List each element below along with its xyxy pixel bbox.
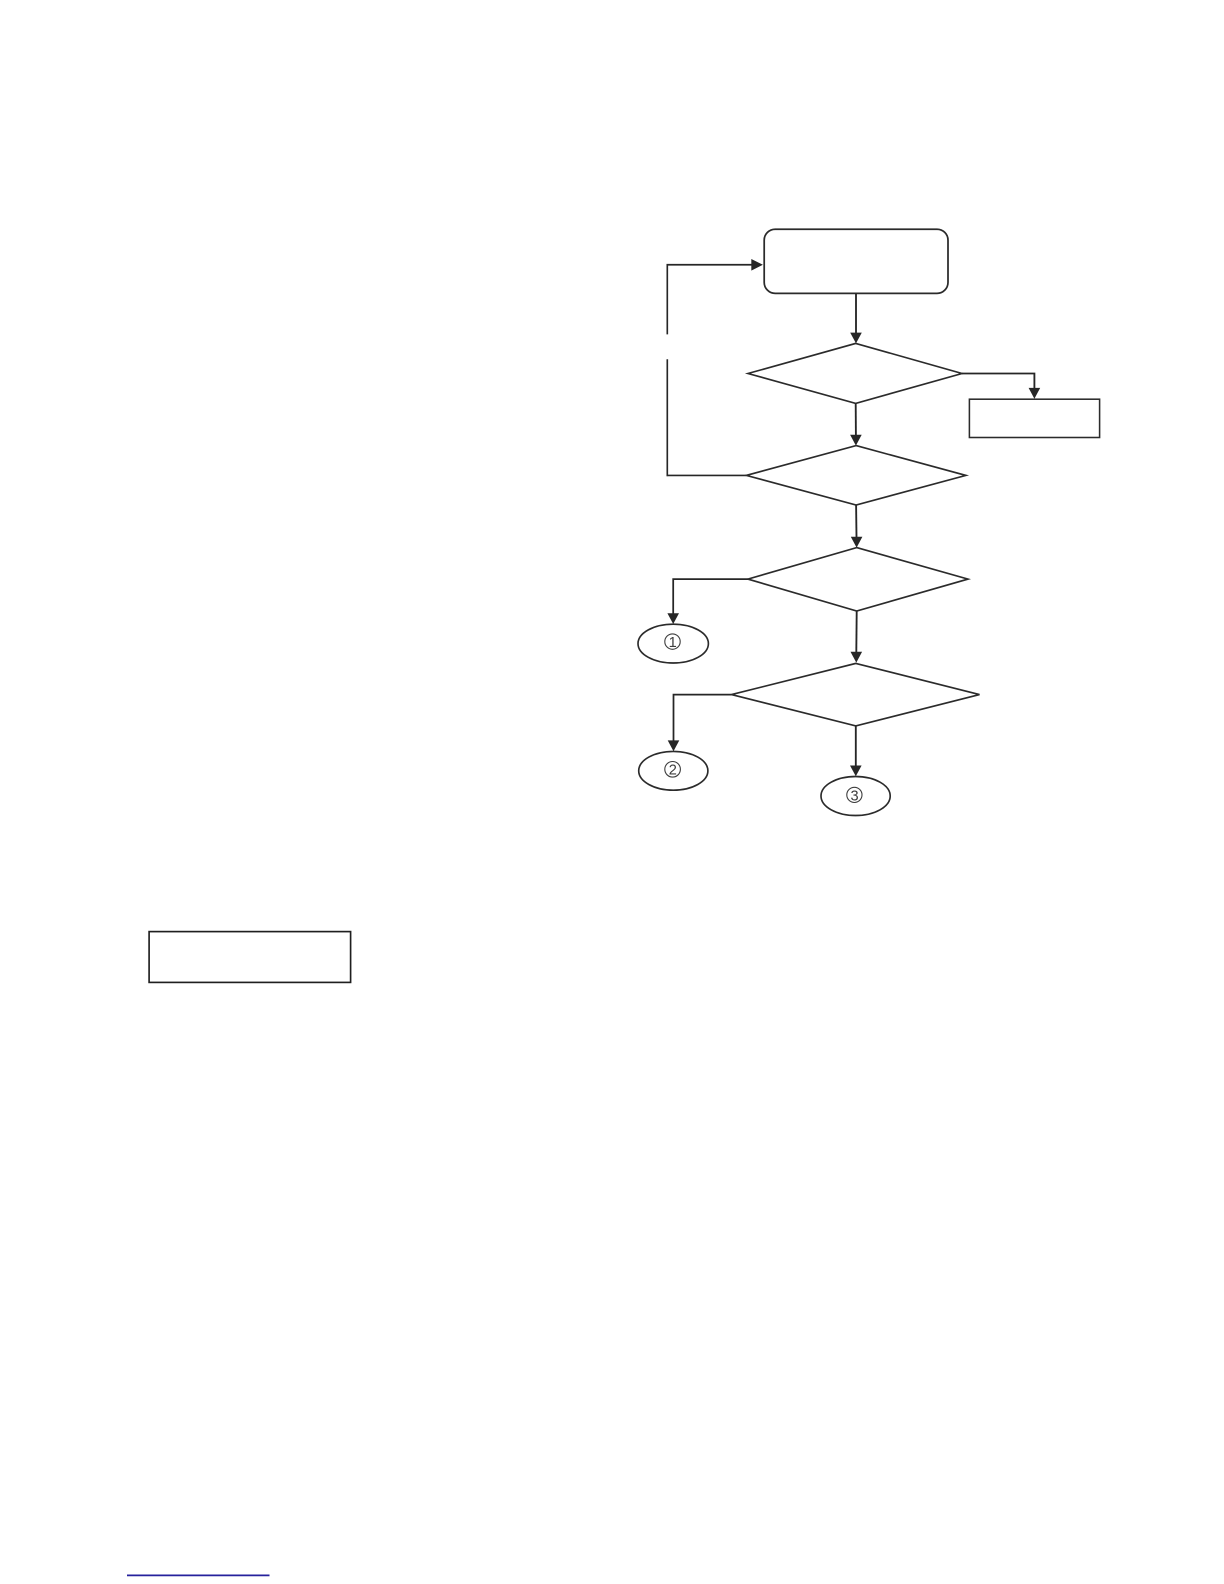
ellipse terminator E3 — [821, 777, 890, 816]
svg-text:2: 2 — [669, 763, 677, 779]
wire: D4 left branch down to ellipse E2 — [668, 695, 732, 752]
decision diamond D4 — [732, 663, 980, 726]
wire: D3 left branch down to ellipse E1 — [667, 579, 748, 624]
wire: D4 bottom branch down to ellipse E3 — [850, 726, 862, 776]
wire: connector P1 bottom to diamond D1 — [850, 293, 862, 343]
circled digit 1 inside E1 — [665, 634, 680, 651]
circled digit 2 inside E2 — [665, 762, 681, 779]
process box P1 (rounded rectangle, top of flowchart) — [764, 229, 948, 293]
wire: loop-back arrow into process box P1 (horizontal top segment) — [667, 259, 763, 271]
ellipse terminator E1 — [638, 624, 708, 663]
decision diamond D2 — [746, 446, 966, 505]
wire: loop-back vertical segment upper part — [666, 264, 668, 334]
wire: connector D2 bottom to diamond D3 — [851, 505, 863, 548]
wire: D1 right branch to rectangle R1 — [962, 374, 1040, 399]
circled digit 3 inside E3 — [847, 787, 862, 804]
wire: loop-back vertical segment lower part (after gap) — [666, 359, 668, 476]
rectangle R2 (empty box on left side of page) — [149, 932, 351, 983]
wire: connector D3 bottom to diamond D4 — [851, 611, 863, 663]
footnote separator line (blue, bottom left) — [127, 1574, 270, 1576]
decision diamond D3 — [748, 548, 968, 611]
wire: connector D1 bottom to diamond D2 — [850, 403, 862, 445]
rectangle R1 (right side box) — [969, 399, 1099, 437]
svg-text:3: 3 — [851, 788, 859, 804]
ellipse terminator E2 — [639, 751, 708, 790]
wire: loop-back bottom horizontal from diamond D2 left vertex — [667, 474, 747, 476]
svg-text:1: 1 — [669, 635, 677, 651]
decision diamond D1 — [748, 343, 962, 403]
